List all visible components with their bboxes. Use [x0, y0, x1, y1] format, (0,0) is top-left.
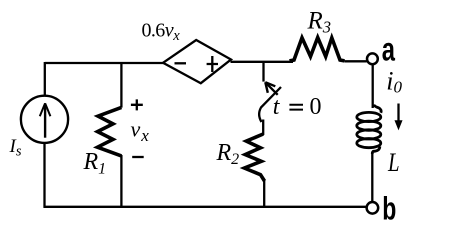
wire top-right horizontal	[231, 61, 294, 63]
svg-text:a: a	[382, 32, 396, 69]
svg-text:Is: Is	[9, 136, 22, 160]
svg-text:L: L	[387, 149, 399, 178]
label minus vx polarity	[132, 156, 144, 158]
svg-text:0.6vx: 0.6vx	[142, 19, 181, 44]
svg-text:R3: R3	[307, 8, 332, 37]
dependent source 0.6vx diamond	[163, 40, 231, 83]
wire left vertical upper	[44, 62, 46, 96]
svg-text:R1: R1	[83, 149, 107, 178]
svg-text:vx: vx	[131, 117, 150, 145]
wire R1 bottom lead	[120, 155, 122, 207]
svg-text:t: t	[273, 94, 281, 120]
wire R2 bottom lead	[263, 180, 265, 207]
label + vx polarity	[131, 99, 143, 110]
node b terminal	[367, 202, 379, 214]
resistor R3	[290, 38, 345, 61]
wire R1 branch top	[120, 62, 122, 108]
resistor R1	[98, 107, 122, 155]
switch t=0	[259, 62, 281, 122]
resistor R2	[244, 134, 264, 181]
wire left vertical lower	[43, 143, 45, 208]
wire top-left horizontal	[45, 62, 164, 64]
svg-text:i0: i0	[386, 67, 402, 97]
current arrow i0	[395, 104, 402, 130]
wire R2 top lead	[262, 120, 264, 136]
svg-text:R2: R2	[216, 140, 240, 168]
wire R3 to node a	[345, 60, 367, 62]
label = 0 of t = 0	[289, 105, 303, 110]
inductor L	[357, 105, 381, 155]
wire node a to inductor	[372, 65, 374, 108]
wire bottom horizontal	[44, 206, 366, 208]
current source Is	[21, 96, 68, 143]
node a terminal	[367, 53, 378, 64]
wire inductor to node b	[371, 152, 373, 202]
svg-text:0: 0	[310, 94, 322, 120]
svg-text:b: b	[382, 191, 396, 227]
